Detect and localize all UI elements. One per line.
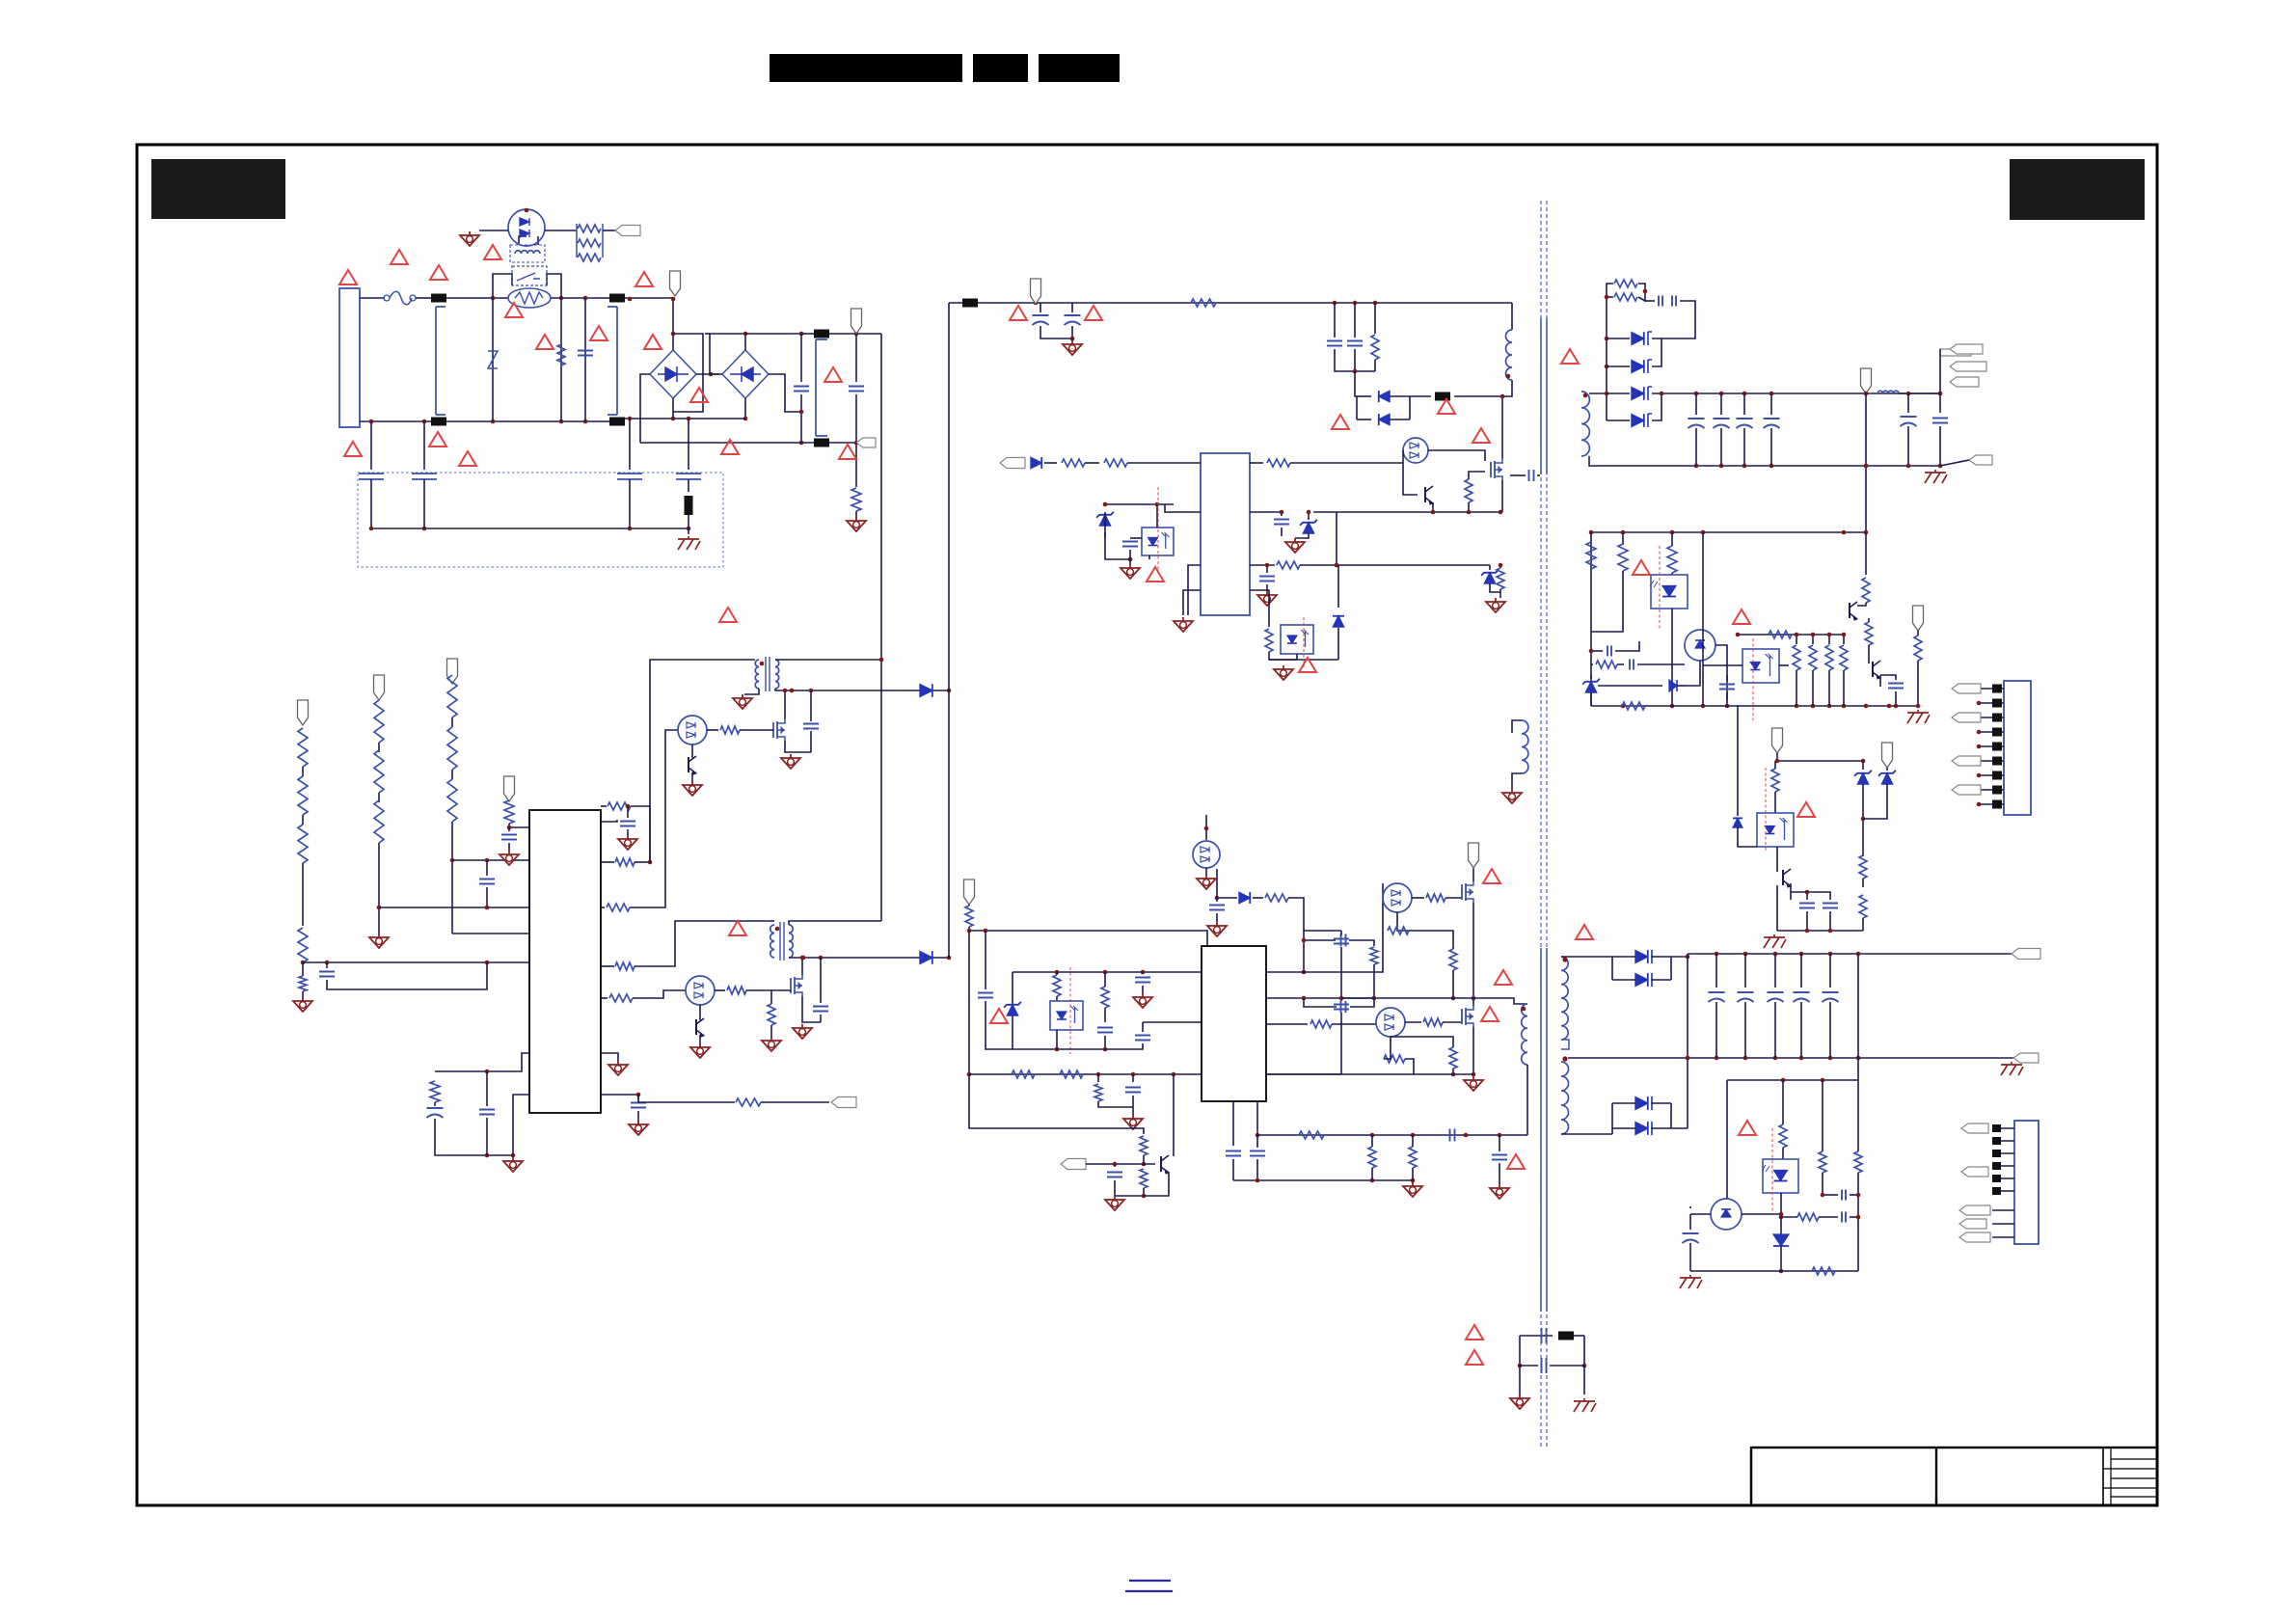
ground standby bulk <box>1063 340 1082 355</box>
junction <box>1799 1056 1804 1061</box>
wire rectifier diode D40 anode <box>1607 338 1630 339</box>
junction <box>485 858 490 863</box>
wire Q81 source <box>1472 903 1474 998</box>
wire relay right leg <box>547 274 561 298</box>
wire C15 gnd <box>637 1111 639 1121</box>
wire vcc diode feed <box>1217 897 1237 899</box>
resistor R38 <box>1265 629 1273 652</box>
main transformer core <box>1541 948 1547 1312</box>
relay K1 contact <box>512 266 547 285</box>
junction <box>559 296 564 301</box>
wire cap C6 branch <box>855 334 857 382</box>
wire cap C31 top <box>1071 303 1073 312</box>
wire R86 tail <box>1143 1155 1145 1164</box>
wire CN1 pin 5 <box>1979 745 2004 747</box>
junction <box>1725 704 1730 709</box>
wire R99 tail <box>1412 1168 1414 1180</box>
wire C90 top <box>1256 1135 1258 1148</box>
wire aux winding 1 feed <box>650 660 755 862</box>
warning triangle 2 <box>391 250 408 264</box>
optocoupler PC30 <box>1142 528 1174 555</box>
PFC choke L1 aux winding <box>755 660 759 689</box>
title redaction box top-right <box>2010 159 2145 220</box>
resistor R53 <box>1596 661 1617 668</box>
wire cap C94 bottom <box>1744 1002 1746 1058</box>
junction <box>1302 938 1307 943</box>
capacitor C46 <box>1901 417 1917 426</box>
resistor R41 <box>1614 293 1637 301</box>
capacitor C52 <box>1719 685 1735 690</box>
wire ferrite to chassis <box>688 515 689 534</box>
PFC choke L2 aux winding <box>770 925 774 958</box>
capacitor C81 <box>1097 1028 1113 1033</box>
wire fb top bus <box>1591 531 1866 533</box>
junction CN1 pin 4 <box>1977 730 1982 735</box>
wire LLC source bus <box>1266 1073 1473 1075</box>
resistor R13c <box>447 779 457 822</box>
capacitor C88 <box>1341 1001 1346 1013</box>
wire LLC fb bus <box>1013 971 1202 973</box>
warning triangle 27 <box>1483 869 1500 883</box>
zener ZD80 <box>1004 1002 1021 1015</box>
opto PC41 isolation line <box>1752 638 1754 720</box>
wire R35 top <box>1469 472 1485 479</box>
junction <box>799 410 804 415</box>
wire resistor R59 tail <box>1843 670 1845 706</box>
warning triangle 32 <box>1633 560 1650 575</box>
wire snubber cap2 top <box>1354 303 1356 338</box>
ferrite bead FB5 <box>814 330 829 338</box>
resistor R11c <box>298 825 308 863</box>
resistor R11e <box>299 976 307 991</box>
warning triangle 1 <box>339 270 357 284</box>
wire D90 cathode <box>1651 956 1671 958</box>
junction <box>1828 929 1833 934</box>
connector lug 12V gnd <box>2013 1053 2039 1063</box>
wire divider tap to IC pin <box>379 907 529 908</box>
wire Q10 source <box>785 741 811 752</box>
common-mode choke LF1 winding A <box>436 307 446 415</box>
wire CN2 pin 1 <box>1996 1127 2014 1129</box>
junction <box>1894 704 1899 709</box>
wire capacitor C44 bottom <box>1743 428 1745 466</box>
gate driver D83 <box>1376 1008 1405 1037</box>
junction <box>559 420 564 424</box>
wire C13 gnd stub <box>508 843 510 851</box>
wire CS to lug <box>761 1101 829 1103</box>
wire R103-C99 <box>1819 1216 1838 1218</box>
resistor R99 <box>1409 1147 1417 1168</box>
DM choke winding bracket <box>816 339 827 436</box>
warning triangle 18 <box>729 921 746 935</box>
junction <box>671 297 676 302</box>
wire R37 top <box>1499 565 1501 568</box>
wire FB pin <box>1250 564 1275 566</box>
wire gnd lug link <box>1940 460 1969 466</box>
warning triangle 26 <box>1299 658 1316 672</box>
wire R70 top <box>1774 761 1776 769</box>
rectifier D92 <box>1635 1096 1648 1110</box>
ground opto30 <box>1121 564 1140 579</box>
junction <box>1103 970 1108 975</box>
lug B+ standby <box>1031 279 1041 304</box>
junction <box>1372 996 1377 1001</box>
wire cathode bus up <box>1670 957 1672 980</box>
junction <box>1842 704 1847 709</box>
D92 tick <box>1651 1096 1653 1110</box>
junction <box>1821 1078 1825 1083</box>
wire cap C6 bottom <box>855 394 857 443</box>
wire bridge1 AC leg <box>640 374 650 443</box>
wire R51 top <box>1622 532 1624 545</box>
wire 3V3 bus <box>1777 753 1863 761</box>
warning triangle 15 <box>429 432 446 447</box>
wire L2 to raw B+ <box>789 921 881 925</box>
wire zd40 <box>1590 675 1592 679</box>
wire R53-C51 <box>1617 663 1624 665</box>
wire to bleeder resistor <box>855 443 857 487</box>
Y-capacitor CY3 <box>617 474 642 479</box>
wire uv rail <box>969 1074 1144 1134</box>
wire cap C15 stub <box>637 1095 639 1099</box>
resistor R17 <box>607 904 630 911</box>
wire L1 to raw B+ <box>775 659 881 661</box>
wire R37 tail <box>1499 589 1501 598</box>
wire comp bus <box>1269 659 1338 661</box>
junction <box>1670 704 1675 709</box>
capacitor C51 <box>1630 660 1634 670</box>
transistor Q41 <box>1850 602 1857 620</box>
resistor R88 <box>1265 894 1288 902</box>
junction <box>636 1093 641 1097</box>
wire pin gnd ic <box>601 1053 618 1061</box>
wire fuse to ferrite FB1 <box>416 297 431 299</box>
ground C86 <box>1207 922 1227 936</box>
ground C84 <box>1123 1115 1143 1129</box>
wire fb comp to IC <box>1143 1021 1202 1023</box>
wire C12 return loop <box>327 962 487 989</box>
wire capacitor C43 top <box>1720 393 1722 415</box>
wire bridge2 bottom leg <box>744 398 746 419</box>
wire R21 tail <box>434 1102 436 1106</box>
warning triangle 36 <box>1576 925 1593 939</box>
title block row lines <box>2103 1459 2157 1497</box>
junction <box>1842 530 1847 535</box>
wire Y left leg <box>1519 1336 1521 1366</box>
junction <box>1464 1133 1469 1138</box>
junction <box>1856 952 1861 957</box>
ground ZD30 <box>1285 538 1305 553</box>
ground Q11 <box>683 781 702 796</box>
wire lug to Q80 <box>1086 1163 1155 1165</box>
wire en 1 <box>1044 462 1057 464</box>
resistor R101 <box>1819 1151 1826 1173</box>
wire pin ZCD1 <box>601 861 614 863</box>
resistor R62 <box>1914 636 1922 661</box>
wire C34 stub <box>1537 474 1540 476</box>
wire R99 top <box>1412 1135 1414 1147</box>
wire C92 top <box>1499 1135 1500 1151</box>
wire cap C37 link <box>1130 537 1142 539</box>
junction <box>1906 392 1911 396</box>
wire CN1 pin 9 <box>1979 803 2004 805</box>
wire cap C20 top <box>810 690 812 721</box>
junction <box>790 689 795 693</box>
junction <box>819 956 824 961</box>
wire C33 bottom <box>1354 349 1356 371</box>
LLC controller U3 <box>1202 946 1266 1101</box>
resistor R11a <box>298 728 308 767</box>
pin pad CN1-4 <box>1992 728 2002 737</box>
warning triangle 24 <box>990 1009 1008 1023</box>
boost diode D13 <box>920 951 932 964</box>
wire boost node 1 <box>775 689 949 690</box>
junction <box>369 420 374 424</box>
capacitor C92 <box>1492 1155 1507 1160</box>
resistor R55 <box>1769 631 1792 638</box>
resistor R31 <box>1371 335 1379 360</box>
wire C99 out <box>1850 1216 1858 1218</box>
wire R31 bottom <box>1374 360 1376 371</box>
wire opto out left <box>1690 1213 1711 1215</box>
capacitor C14 <box>620 822 635 826</box>
wire aux top <box>1512 720 1522 733</box>
resistor R102 <box>1854 1151 1862 1173</box>
wire 12Vfb left rail <box>1726 1080 1728 1199</box>
clamp loop <box>1357 396 1410 420</box>
wire aux1 to gnd <box>744 689 759 694</box>
wire lug joins <box>1939 349 1941 393</box>
warning triangle 7 <box>590 326 608 340</box>
MOSFET Q30 standby <box>1491 459 1502 480</box>
junction <box>1589 530 1594 535</box>
wire opto cathode down <box>1671 609 1673 706</box>
warning triangle 6 <box>536 335 554 349</box>
wire clamp bot left <box>1357 419 1371 420</box>
wire shield bus <box>371 479 689 528</box>
diode D80 <box>1239 892 1250 904</box>
warning triangle 34 <box>1797 802 1815 817</box>
resistor R3 <box>578 225 601 232</box>
junction <box>1779 1215 1784 1220</box>
junction <box>967 929 972 934</box>
wire tl431 ref <box>1781 1216 1797 1218</box>
wire resistor R58 top <box>1828 635 1830 644</box>
chassis ground shield <box>678 536 700 550</box>
junction <box>1472 1072 1476 1077</box>
wire zd71 join <box>1863 784 1887 819</box>
chassis ground 3V3 <box>1764 934 1786 948</box>
wire VCC bus to IC <box>969 931 1207 946</box>
wire C47 bottom <box>1939 426 1941 466</box>
resistor R94 <box>1423 1018 1443 1026</box>
junction <box>1103 502 1108 507</box>
wire pin CS <box>601 1094 638 1096</box>
ground C82 <box>1133 993 1152 1008</box>
resistor R52 <box>1667 546 1677 573</box>
junction <box>1128 557 1133 562</box>
wire R81 top <box>1056 972 1058 975</box>
junction <box>1864 704 1869 709</box>
resistor R61 <box>1865 622 1873 645</box>
capacitor C40 <box>1659 296 1662 307</box>
resistor R98 <box>1368 1147 1376 1168</box>
wire drv2 out <box>1405 1021 1421 1023</box>
chassis ground Y secondary <box>1574 1398 1596 1412</box>
resistor R30 <box>1191 299 1216 307</box>
junction <box>1500 394 1505 399</box>
junction <box>1335 563 1339 568</box>
lug sense 3 <box>447 659 458 684</box>
resistor R6 bleeder <box>851 488 861 511</box>
junction <box>783 689 788 693</box>
warning triangle 31 <box>1466 1350 1483 1365</box>
wire cap C30 top <box>1040 303 1041 312</box>
wire chain1 <box>302 767 304 776</box>
boost diode D10 <box>920 684 932 697</box>
junction <box>422 420 427 424</box>
wire fb bottom bus <box>1591 705 1917 707</box>
wire chain3 mid <box>451 770 453 779</box>
wire Q12 source <box>802 996 821 1022</box>
wire CN2 pin 5 <box>1996 1177 2014 1179</box>
wire 12V sense down <box>1857 954 1859 1080</box>
wire CN1 pin 1 <box>1979 688 2004 690</box>
resistor R33 <box>1104 459 1127 467</box>
wire cap branch pin <box>601 820 617 822</box>
wire CN1 pin 3 <box>1979 717 2004 718</box>
ground C14 <box>618 835 637 850</box>
pin pad CN2-4 <box>1992 1162 2001 1170</box>
wire aux bottom <box>1512 773 1522 789</box>
pin pad CN1-3 <box>1992 714 2002 722</box>
wire chain1 tail <box>302 962 304 976</box>
wire Y bot right <box>1550 1365 1584 1367</box>
capacitor C86 <box>1209 906 1225 910</box>
redaction bar 3 <box>1039 54 1120 82</box>
wire VCC to IC <box>509 824 529 827</box>
ground C15 <box>629 1121 648 1135</box>
wire boot cap link <box>1304 939 1336 941</box>
resistor R40 <box>1614 280 1637 287</box>
wire FB line <box>1300 564 1490 566</box>
wire cap C96 bottom <box>1800 1002 1802 1058</box>
warning triangle 20 <box>1085 306 1102 320</box>
junction <box>628 417 633 421</box>
wire cap C97 top <box>1829 954 1831 988</box>
connector lug CN1-8 <box>1952 785 1981 795</box>
wire cap C13 stub <box>508 827 510 831</box>
PFC choke L2 core <box>780 922 784 961</box>
wire drv return <box>1403 450 1418 495</box>
resistor R35 <box>1465 479 1472 502</box>
wire D93 cathode <box>1651 1127 1671 1129</box>
capacitor C36 <box>1259 577 1275 582</box>
wire cap C100 top <box>1689 1206 1691 1208</box>
wire AC line L from inlet to fuse <box>360 297 385 299</box>
wire en 2 <box>1085 462 1099 464</box>
wire opto cathode <box>1148 555 1150 559</box>
wire to primary bottom <box>1454 380 1512 396</box>
wire resistor R56 tail <box>1796 670 1797 706</box>
junction <box>1307 510 1311 515</box>
junction <box>1131 1072 1136 1077</box>
wire CS line right <box>638 1095 735 1102</box>
title block outline <box>1751 1448 2157 1505</box>
wire C101 bottom <box>1340 947 1342 998</box>
resistor R11b <box>298 776 308 815</box>
MOSFET Q82 low side <box>1462 1006 1473 1027</box>
wire lug to R62 <box>1917 631 1919 636</box>
capacitor C53 <box>1888 684 1904 689</box>
resistor R5 <box>578 254 601 261</box>
wire R51 tail <box>1591 571 1623 632</box>
wire snubber res top <box>1374 303 1376 334</box>
connector lug CN1-3 <box>1952 713 1981 722</box>
wire C86 tail <box>1216 913 1218 922</box>
wire 12V return rail <box>1568 1057 2015 1059</box>
wire out 12V <box>1671 956 1688 958</box>
PFC choke L1 main winding <box>775 660 779 689</box>
ground power stage <box>1464 1076 1483 1091</box>
junction <box>1811 704 1816 709</box>
resistor R50 <box>1586 542 1596 569</box>
wire fb mid bus <box>1738 634 1846 636</box>
junction <box>1265 563 1270 568</box>
wire aux2 stub <box>771 920 774 922</box>
wire X-cap branch <box>584 298 586 421</box>
ground Q80 <box>1105 1196 1124 1210</box>
wire 3V3 gnd bus <box>1777 930 1863 932</box>
wire ZCD1 link <box>635 861 650 863</box>
wire capacitor C45 top <box>1770 393 1772 415</box>
resistor R89 <box>1370 947 1378 964</box>
wire chain3 to IC pin <box>452 933 529 934</box>
junction CN1 pin 6 <box>1977 759 1982 764</box>
junction <box>1781 1078 1786 1083</box>
wire boost node 2 <box>789 957 949 959</box>
phase dot T2 pri <box>1522 1007 1526 1012</box>
resistor R51 <box>1618 544 1628 571</box>
bridge rectifier B2 <box>722 350 769 398</box>
resistor R93 <box>1310 1020 1332 1028</box>
ground chain2 <box>369 934 389 948</box>
ground U2 <box>1174 617 1193 632</box>
ground chain1 <box>293 997 312 1012</box>
wire 12Vfb bottom bus <box>1690 1270 1858 1272</box>
wire cap C14 stub <box>627 806 629 818</box>
wire C98 link <box>1823 1194 1838 1196</box>
junction <box>1621 530 1626 535</box>
junction <box>485 906 490 910</box>
wire Y gnd right <box>1583 1366 1585 1394</box>
wire C88 out <box>1350 998 1374 1007</box>
resistor R71 <box>1859 855 1867 879</box>
wire opto41 out <box>1779 664 1789 666</box>
wire 5V out <box>1899 392 1940 394</box>
junction <box>1827 633 1832 637</box>
wire from fb bus to D70 <box>1737 706 1739 816</box>
wire CN1 pin 6 <box>1979 760 2004 762</box>
rectifier diode D43 cathode tick <box>1648 414 1652 427</box>
wire opto feed <box>1165 504 1201 512</box>
wire D91 anode <box>1612 979 1635 981</box>
junction <box>628 527 633 531</box>
wire R101 tail <box>1822 1173 1823 1195</box>
junction <box>709 372 714 377</box>
wire snubber join <box>1638 284 1645 301</box>
wire standby B+ rail <box>949 302 1512 304</box>
